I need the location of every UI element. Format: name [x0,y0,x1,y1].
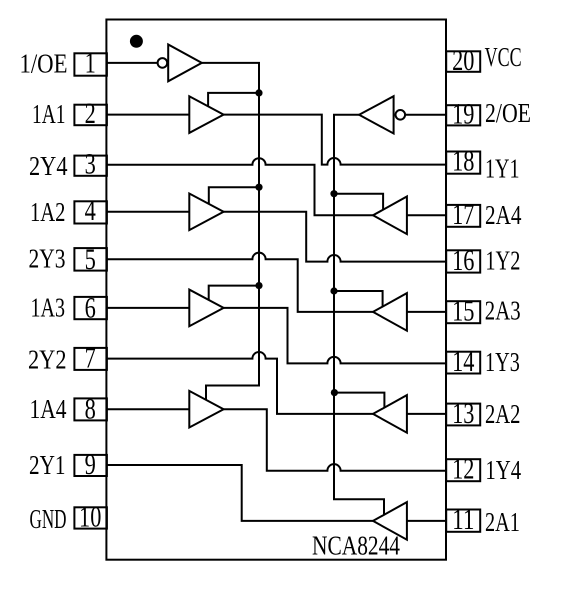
pin 20 box [446,51,480,72]
wire net 2Y4 with hop over left bus [106,158,373,215]
svg-text:20: 20 [452,44,474,77]
pin-1 marker dot [130,35,143,48]
wire pin1 to inverter bubble [106,62,157,64]
pin 18 box [446,152,480,174]
wire net 2Y2 with hop over left bus [106,352,373,414]
svg-text:2/OE: 2/OE [485,97,531,128]
pin 12 box [446,459,480,481]
wire 1OE bus: inverter output, left enable bus, B4 enable [202,63,259,400]
svg-text:19: 19 [452,98,474,131]
pin 1 box [74,53,107,75]
svg-text:1Y4: 1Y4 [485,454,521,485]
svg-text:7: 7 [85,341,96,374]
svg-text:2Y1: 2Y1 [29,449,66,480]
svg-text:12: 12 [452,453,474,486]
junction dot C3 enable [330,287,337,294]
svg-text:NCA8244: NCA8244 [312,529,400,560]
pin 17 box [446,205,480,227]
wire 1A4 input [106,408,189,410]
wire 2A4 input [407,214,446,216]
pin 14 box [446,352,480,374]
IC body outline U1 NCA8244 [106,20,446,560]
pin 13 box [446,404,480,426]
svg-text:1A4: 1A4 [30,393,67,424]
svg-text:15: 15 [452,295,474,328]
wire 1A3 input [106,307,189,309]
wire 2A2 input [407,413,446,415]
svg-text:18: 18 [452,145,474,178]
junction dot B3 enable [255,282,262,289]
pin 3 box [74,156,107,176]
pin 19 box [446,105,480,125]
wire net 1Y4 with hop over right bus [224,409,447,471]
pin 10 box [74,507,107,528]
buffer C3 2A3 triangle [373,293,407,331]
svg-text:GND: GND [30,503,67,534]
wire enable stub C2 [334,393,384,408]
svg-text:5: 5 [85,243,96,276]
junction dot C2 enable [331,389,338,396]
inverter U1 1/OE bubble [158,58,168,68]
wire 2A1 input [407,520,446,522]
svg-text:2A2: 2A2 [485,398,521,429]
pin 5 box [74,248,107,271]
svg-text:1A2: 1A2 [30,196,66,227]
wire net 2Y1 [106,465,373,521]
pin 9 box [74,455,107,476]
svg-text:4: 4 [85,194,96,227]
junction dot B2 enable [255,184,262,191]
buffer B2 1A2 triangle [189,194,223,231]
svg-text:2Y4: 2Y4 [29,150,68,181]
svg-text:8: 8 [85,392,96,425]
svg-text:16: 16 [452,244,474,277]
pin 2 box [74,105,107,126]
pin 7 box [74,348,107,370]
buffer C4 2A4 triangle [373,197,407,235]
svg-text:2A4: 2A4 [485,199,522,230]
wire net 1Y2 with hop over right bus [224,212,447,262]
wire 1A1 input [106,114,189,116]
svg-text:2: 2 [85,97,96,130]
inverter U2 2/OE bubble [396,110,406,120]
buffer B4 1A4 triangle [189,391,223,428]
pin 15 box [446,301,480,323]
pin 4 box [74,201,107,223]
wire 1A2 input [106,211,189,213]
svg-text:1Y2: 1Y2 [485,244,520,275]
svg-text:11: 11 [452,503,474,536]
buffer B3 1A3 triangle [189,290,223,327]
svg-text:2Y2: 2Y2 [28,343,67,374]
buffer C1 2A1 triangle [373,502,407,540]
svg-text:1A3: 1A3 [31,292,66,323]
svg-text:2Y3: 2Y3 [29,243,66,274]
wire enable stub B2 [209,187,259,204]
svg-text:1Y3: 1Y3 [485,346,520,377]
pin 11 box [446,510,480,532]
wire 2OE bus: inverter output, right enable bus, C1 enable [334,115,384,515]
svg-text:3: 3 [85,147,96,180]
wire enable stub C3 [334,291,383,307]
pin 16 box [446,250,480,272]
pin 6 box [74,297,107,319]
svg-text:1A1: 1A1 [32,98,66,129]
svg-text:9: 9 [85,448,96,481]
svg-text:2A1: 2A1 [485,506,520,537]
wire enable stub C4 [334,194,383,210]
svg-text:6: 6 [85,291,96,324]
wire 2A3 input [407,311,446,313]
wire net 1Y1 with hop over right bus [224,115,447,165]
svg-text:1Y1: 1Y1 [485,152,520,183]
svg-text:13: 13 [452,397,474,430]
junction dot C4 enable [330,190,337,197]
svg-text:14: 14 [452,345,474,378]
wire net 1Y3 with hop over right bus [224,308,447,364]
wire enable stub B3 [209,286,259,301]
buffer B1 1A1 triangle [189,96,223,133]
svg-text:2A3: 2A3 [485,295,521,326]
svg-text:17: 17 [452,198,474,231]
wire pin19 to inverter bubble [405,114,446,116]
svg-text:1/OE: 1/OE [20,48,68,79]
wire net 2Y3 with hop over left bus [106,253,373,312]
inverter U1 1/OE triangle [168,45,202,82]
buffer C2 2A2 triangle [373,395,407,433]
svg-text:1: 1 [85,47,96,80]
junction dot B1 enable [255,89,262,96]
inverter U2 2/OE triangle [359,96,394,133]
pin 8 box [74,398,107,420]
svg-text:10: 10 [79,500,101,533]
svg-text:VCC: VCC [485,41,522,72]
wire enable stub B1 [208,93,259,107]
